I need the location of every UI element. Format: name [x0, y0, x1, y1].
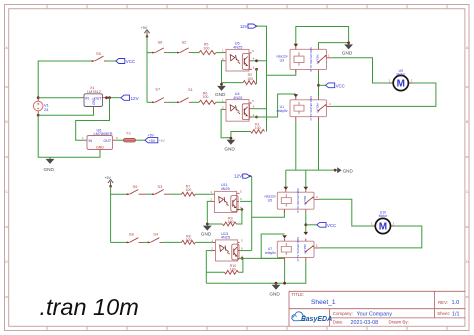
svg-text:SRD-05VDC-SL-C: SRD-05VDC-SL-C: [296, 237, 300, 263]
svg-text:6: 6: [240, 197, 242, 201]
svg-text:5: 5: [252, 99, 254, 103]
node junction gnd rail: [334, 169, 337, 172]
net flag VCC: [116, 59, 135, 65]
svg-text:2: 2: [210, 197, 212, 201]
resistor R6: [199, 91, 216, 104]
node junction at X1 OUT: [105, 96, 108, 99]
svg-text:D: D: [466, 260, 469, 264]
svg-text:12V: 12V: [234, 174, 243, 179]
svg-text:3: 3: [116, 136, 118, 140]
svg-text:1.0: 1.0: [452, 300, 460, 306]
svg-text:4: 4: [329, 102, 331, 106]
svg-text:S7: S7: [155, 87, 161, 92]
svg-text:S5: S5: [96, 51, 102, 56]
net flag 12V top rail: [240, 24, 258, 29]
wire V1 top to X1 IN: [38, 97, 81, 99]
svg-text:GND: GND: [201, 232, 212, 237]
svg-text:C: C: [466, 190, 469, 194]
title block text: [292, 292, 460, 326]
svg-text:Sheet:: Sheet:: [437, 311, 450, 316]
svg-text:1: 1: [222, 49, 224, 53]
svg-text:100: 100: [185, 188, 191, 192]
svg-text:2: 2: [222, 105, 224, 109]
svg-text:+5V: +5V: [141, 26, 148, 30]
svg-text:1: 1: [328, 53, 330, 57]
pin arrow into relay U3 left coil pin: [294, 44, 299, 47]
wire U6 OUT to fuse F1: [115, 139, 124, 141]
switch S9: [127, 184, 147, 195]
node junction U5 pin4: [255, 59, 258, 62]
svg-text:1: 1: [82, 136, 84, 140]
power flag +5V top block: [141, 26, 150, 38]
svg-text:Sheet_1: Sheet_1: [311, 299, 336, 306]
wire R6 to U4 pin1: [216, 101, 224, 103]
node junction U5 pin6: [255, 68, 258, 71]
svg-text:U3: U3: [280, 59, 284, 63]
switch S7: [152, 87, 167, 104]
wire S2 to R5: [192, 52, 199, 54]
wire relay U5 common to motor U10 pin1: [320, 199, 373, 226]
ground symbol between opto rows: [215, 84, 226, 97]
wire 12V vertical bottom block: [251, 176, 253, 250]
wire relay U7 bottom left pin to gnd rail: [284, 261, 286, 283]
wire relay U5 bottom right pin down to relay U7: [305, 213, 307, 232]
relay U3 SRD-05VDC-SL-C: [276, 47, 331, 73]
pin arrow into relay U5 left coil pin: [284, 187, 289, 190]
svg-text:2: 2: [211, 247, 213, 251]
svg-text:SRD-05VDC-SL-C: SRD-05VDC-SL-C: [309, 96, 313, 122]
wire +5V vertical feeding switch rows: [147, 37, 152, 103]
switch S2: [177, 39, 192, 53]
svg-text:S2: S2: [182, 39, 188, 44]
wire VCC row from V1 top: [38, 61, 91, 98]
wire R8 to U13 pin1: [195, 241, 213, 243]
svg-text:6: 6: [253, 104, 255, 108]
fuse F1: [124, 132, 136, 142]
net port +5V after fuse: [145, 134, 165, 144]
wire relay U3 common to motor U9 pin1: [332, 58, 390, 83]
resistor R8: [181, 235, 195, 245]
power flag +5V bottom block: [104, 176, 113, 188]
wire V1 bottom to X1 GND pin: [38, 110, 93, 116]
svg-text:GND: GND: [44, 167, 55, 172]
wire U11 pin2 down to gnd: [207, 201, 212, 224]
wire motor U9 pin2 to relay U1 common: [332, 83, 436, 106]
svg-text:S3: S3: [158, 184, 164, 189]
wire relay U7 bottom right pin to gnd rail corner: [206, 261, 305, 283]
node junction gnd rail right: [283, 282, 286, 285]
voltage source V1: [33, 98, 49, 116]
node junction at GND top right: [347, 41, 350, 44]
EasyEDA logo: [292, 312, 332, 323]
wire row2 bottom block: [111, 241, 127, 243]
svg-text:100: 100: [230, 268, 236, 272]
svg-text:VCC: VCC: [126, 59, 135, 64]
node junction above V1: [37, 96, 40, 99]
svg-text:A: A: [466, 46, 469, 50]
svg-text:5: 5: [241, 239, 243, 243]
svg-text:M: M: [397, 79, 405, 90]
svg-text:Company:: Company:: [333, 311, 353, 316]
svg-text:GND: GND: [343, 168, 354, 173]
wire R5 to U5 pin1: [216, 52, 224, 54]
svg-text:Motor: Motor: [379, 214, 389, 218]
svg-text:2: 2: [222, 57, 224, 61]
node junction gnd row1 bottom: [206, 223, 209, 226]
wire relay U3 right coil pin to GND: [319, 43, 349, 47]
svg-text:VCC: VCC: [336, 83, 345, 88]
svg-text:1/1: 1/1: [452, 311, 460, 317]
svg-text:4N25: 4N25: [233, 96, 242, 100]
wire long net from U13 to relay U7 coil: [261, 234, 284, 258]
wire VCC node to flag: [319, 84, 326, 86]
svg-text:OUT: OUT: [104, 139, 112, 143]
svg-text:6: 6: [241, 246, 243, 250]
ground symbol near V1: [44, 157, 55, 172]
svg-text:100: 100: [202, 95, 208, 99]
svg-text:1: 1: [371, 222, 373, 226]
svg-text:100: 100: [255, 126, 261, 130]
wire 12V branch to relay U3 coil: [267, 70, 296, 76]
resistor R1 with wire to gnd: [231, 122, 265, 137]
svg-text:GND: GND: [215, 92, 226, 97]
svg-text:1: 1: [211, 238, 213, 242]
wire relay U1 bottom pins down to gnd rail: [296, 122, 319, 171]
svg-text:1: 1: [222, 98, 224, 102]
svg-text:RELAY: RELAY: [303, 196, 307, 206]
wire relay U3 coil pin to GND loop: [296, 27, 349, 47]
pin arrow into relay U7 left coil pin: [282, 235, 287, 238]
motor U10: [371, 210, 395, 233]
wire VCC node to flag bottom: [306, 224, 317, 226]
regulator U6 LM7805ER: [82, 128, 118, 151]
row 2 wire from +5V vertical: [147, 101, 152, 103]
svg-text:S4: S4: [153, 231, 159, 236]
pin arrow into relay U1 left coil pin: [294, 94, 299, 97]
svg-text:TITLE:: TITLE:: [292, 292, 305, 297]
wire X1 OUT to 12V flag: [105, 97, 121, 99]
wire S7 to S1: [167, 101, 177, 103]
wire U13 pin4 to long vertical: [240, 257, 285, 259]
ground symbol mid right (rotated): [335, 167, 353, 173]
svg-text:A: A: [5, 46, 8, 50]
svg-text:4: 4: [253, 56, 255, 60]
wire 12V branch to relay U5 bottom left pin: [252, 209, 285, 217]
wire S3 to R7: [170, 193, 181, 195]
svg-text:REV:: REV:: [438, 300, 448, 305]
net flag VCC bottom block: [317, 222, 336, 227]
svg-text:+5V: +5V: [104, 176, 111, 180]
wire F1 to +5V port: [136, 139, 146, 141]
svg-text:D: D: [5, 260, 8, 264]
wire 12V branch to U13 middle pin: [240, 250, 252, 252]
resistor R7: [181, 184, 195, 196]
node junction at top gnd: [220, 83, 223, 86]
svg-text:12V: 12V: [240, 24, 248, 29]
svg-text:RELAY: RELAY: [316, 55, 320, 65]
svg-text:EasyEDA: EasyEDA: [301, 316, 332, 323]
svg-text:LM7805ER: LM7805ER: [94, 132, 113, 136]
svg-text:S8: S8: [129, 231, 135, 236]
wire U4 pin2 down to gnd: [221, 109, 231, 137]
wire relay U3 bottom right pin down to VCC node: [318, 73, 320, 98]
svg-text:C: C: [5, 190, 8, 194]
svg-text:relay5v: relay5v: [277, 109, 288, 113]
svg-text:LM7812: LM7812: [87, 90, 101, 94]
optocoupler U11 4N25: [210, 183, 242, 212]
optocoupler U13 4N25: [211, 232, 243, 261]
node junction VCC bottom block: [304, 223, 307, 226]
svg-text:GND: GND: [96, 145, 104, 149]
svg-text:+5V: +5V: [159, 139, 166, 143]
svg-text:GND: GND: [92, 97, 96, 105]
node junction U11 pin4: [241, 208, 244, 211]
svg-text:2: 2: [393, 222, 395, 226]
node junction below V1: [37, 114, 40, 117]
wire S6 to S2: [167, 52, 177, 54]
node junction U4 pin4: [255, 116, 258, 119]
wire gnd rail to relay U5 right coil pin: [305, 170, 307, 189]
pin arrow into relay U5 right coil pin: [304, 187, 309, 190]
svg-text:RELAY: RELAY: [316, 103, 320, 113]
wire S1 to R6: [192, 101, 199, 103]
wire U4 pin4 to relay U1 coil: [252, 94, 296, 117]
svg-text:Motor: Motor: [396, 72, 406, 76]
wire S4 to R8: [163, 241, 182, 243]
svg-text:24: 24: [44, 107, 49, 112]
title block frame: [289, 291, 465, 326]
ground symbol bottom: [269, 283, 280, 296]
svg-text:+5V: +5V: [149, 139, 156, 143]
wire gnd rail mid sheet: [286, 169, 335, 171]
switch S8: [127, 231, 144, 243]
svg-text:Drawn By:: Drawn By:: [389, 320, 409, 325]
node junction below R1: [230, 137, 233, 140]
wire R7 to U11 pin1: [195, 193, 212, 195]
switch S5: [92, 51, 107, 62]
relay U7 SRD-05VDC-SL-C: [265, 237, 320, 263]
svg-text:SRD-05VDC-SL-C: SRD-05VDC-SL-C: [296, 188, 300, 214]
svg-text:GND: GND: [269, 292, 280, 297]
svg-text:6: 6: [253, 66, 255, 70]
svg-text:Your Company: Your Company: [357, 312, 393, 318]
border zone letters: [5, 46, 469, 264]
node junction gnd rail left: [275, 282, 278, 285]
switch S6: [152, 39, 167, 53]
wire +5V vertical bottom block: [111, 186, 127, 242]
switch S3: [152, 184, 170, 195]
ground symbol below U4: [224, 138, 235, 151]
svg-text:1: 1: [389, 79, 391, 83]
svg-text:3: 3: [316, 195, 318, 199]
svg-text:100: 100: [228, 220, 234, 224]
wire 12V branch to U11 middle pin: [240, 200, 252, 202]
svg-text:4N25: 4N25: [221, 236, 230, 240]
svg-text:VCC: VCC: [327, 223, 336, 228]
wire U5 collector to 12V rail: [252, 60, 267, 62]
svg-text:S1: S1: [188, 87, 194, 92]
wire V1 bottom to ground node: [38, 115, 100, 157]
net flag 12V bottom block: [234, 174, 252, 179]
svg-text:100: 100: [203, 46, 209, 50]
svg-text:B: B: [466, 120, 469, 124]
wire S9 to S3: [146, 193, 152, 195]
resistor R2 with wire to gnd node: [222, 69, 258, 84]
regulator X1 LM7812: [82, 86, 106, 110]
wire motor U10 pin2 to relay U7 common: [320, 226, 422, 248]
optocoupler U5 4N25: [222, 42, 255, 71]
wire U13 pin2 down to gnd rail: [206, 251, 213, 284]
relay U1 SRD-05VDC-SL-C: [277, 96, 332, 122]
wire 12V branch down to U6 IN: [76, 98, 110, 141]
svg-text:5: 5: [240, 190, 242, 194]
motor U9: [389, 69, 413, 91]
svg-text:100: 100: [186, 238, 192, 242]
svg-text:5: 5: [316, 243, 318, 247]
svg-text:GND: GND: [342, 51, 353, 56]
resistor R9 with wires: [207, 210, 242, 227]
svg-text:B: B: [5, 120, 8, 124]
svg-text:relay5v: relay5v: [265, 251, 276, 255]
ground symbol below U11: [201, 224, 212, 237]
net flag 12V at X1 output: [121, 95, 140, 101]
optocoupler U4 4N25: [222, 92, 255, 121]
node junction VCC top block: [317, 84, 320, 87]
svg-text:+5V: +5V: [148, 134, 155, 138]
pin arrow into relay U7 right coil pin: [304, 232, 309, 235]
svg-text:1: 1: [210, 190, 212, 194]
node junction branch to U6: [108, 96, 111, 99]
svg-text:GND: GND: [224, 147, 235, 152]
node junction U13 pin4: [241, 257, 244, 260]
svg-text:4N25: 4N25: [221, 187, 230, 191]
wire 12V branch to U4 middle pin: [252, 108, 267, 110]
svg-text:Date:: Date:: [333, 320, 344, 325]
wire S5 to VCC flag: [106, 60, 116, 62]
wire gnd rail to relay U5 left coil pin: [285, 170, 287, 189]
svg-text:F1: F1: [127, 132, 131, 136]
svg-text:4N25: 4N25: [233, 45, 242, 49]
svg-text:IN: IN: [89, 139, 93, 143]
resistor R5: [199, 43, 216, 55]
svg-text:100: 100: [247, 77, 253, 81]
svg-text:S9: S9: [133, 184, 139, 189]
svg-text:2021-03-08: 2021-03-08: [351, 320, 379, 326]
resistor R10 with wires: [206, 258, 243, 274]
ground symbol top right: [342, 43, 353, 56]
switch S4: [148, 231, 163, 243]
svg-text:S6: S6: [158, 39, 164, 44]
svg-text:.tran 10m: .tran 10m: [40, 294, 139, 320]
svg-text:U5: U5: [268, 199, 272, 203]
net flag VCC top block: [326, 83, 345, 88]
wire 12V rail vertical: [257, 26, 267, 131]
relay U5 SRD-05VDC-SL-C: [264, 188, 319, 214]
svg-text:RELAY: RELAY: [303, 244, 307, 254]
svg-text:2: 2: [411, 79, 413, 83]
svg-text:12V: 12V: [131, 96, 140, 101]
wire S8 to S4: [143, 241, 148, 243]
svg-text:IN: IN: [85, 97, 89, 101]
svg-text:M: M: [379, 222, 387, 233]
svg-text:SRD-05VDC-SL-C: SRD-05VDC-SL-C: [309, 47, 313, 73]
wire U5 pin2 down to gnd node: [222, 61, 224, 85]
svg-text:5: 5: [252, 49, 254, 53]
switch S1: [177, 87, 194, 103]
